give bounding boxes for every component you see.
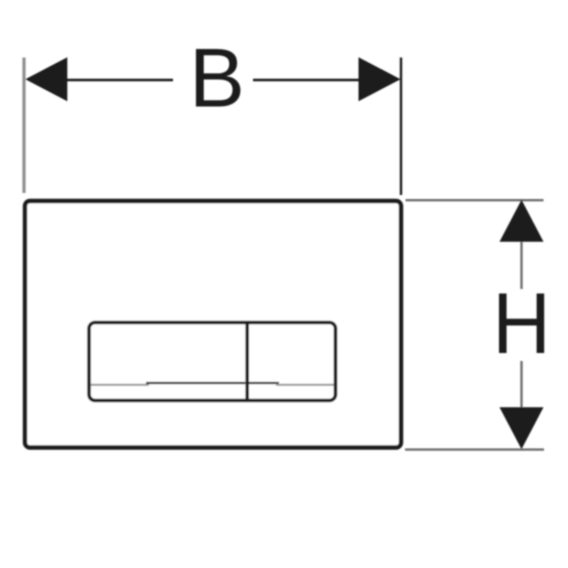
extension line top (H dimension) — [406, 199, 544, 201]
right button bevel black — [249, 382, 279, 384]
flush plate outline — [25, 201, 401, 448]
dimension line B right segment — [253, 79, 360, 82]
extension line left (B dimension) — [22, 58, 25, 194]
extension line right (B dimension) — [400, 58, 402, 196]
arrowhead up — [500, 200, 544, 242]
svg-text:B: B — [189, 30, 245, 124]
dimension line H lower segment — [520, 361, 522, 408]
button divider — [245, 321, 249, 402]
dimension line B left segment — [66, 79, 173, 82]
arrowhead down — [500, 407, 544, 449]
left button bevel black — [146, 382, 245, 384]
svg-text:H: H — [492, 275, 550, 372]
arrowhead left — [25, 57, 67, 101]
arrowhead right — [359, 57, 401, 101]
button frame — [89, 323, 336, 401]
extension line bottom (H dimension) — [405, 448, 544, 450]
left button bevel gray — [91, 384, 149, 386]
dimension line H upper segment — [520, 241, 522, 289]
right button bevel gray — [276, 384, 334, 386]
